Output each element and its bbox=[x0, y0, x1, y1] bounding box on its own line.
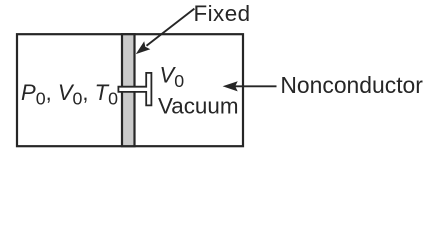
svg-text:Vacuum: Vacuum bbox=[158, 94, 238, 119]
svg-text:Nonconductor: Nonconductor bbox=[280, 72, 423, 98]
svg-text:P0, V0, T0: P0, V0, T0 bbox=[21, 80, 118, 108]
svg-text:V0: V0 bbox=[160, 63, 185, 91]
svg-text:Fixed: Fixed bbox=[194, 1, 251, 26]
